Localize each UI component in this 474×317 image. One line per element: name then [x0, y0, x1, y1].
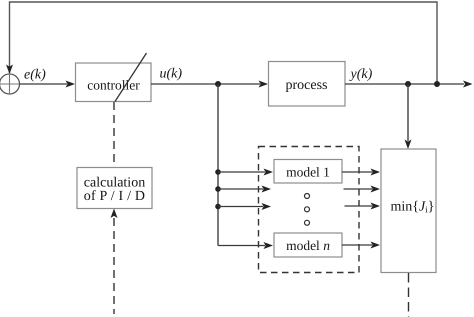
arrowhead up into calculation box: [111, 209, 118, 219]
adjustable-parameter slash through controller: [115, 53, 147, 102]
wire: model 1 output to min box: [342, 169, 380, 176]
junction node y(k) feedback: [434, 81, 440, 87]
wire: ellipsis output 3 to min box: [345, 203, 381, 210]
junction node y(k) to min box: [405, 81, 411, 87]
dashed model-bank box: [259, 147, 360, 273]
wire: feedback loop top (from output back to summing junction): [10, 2, 438, 84]
wire: branch into model n: [218, 242, 273, 249]
svg-text:e(k): e(k): [24, 68, 46, 83]
min{Ji} selector box: [381, 149, 436, 273]
ellipsis circle 2: [305, 207, 310, 212]
model n box: [274, 233, 342, 257]
wire: y(k) output line: [345, 81, 473, 88]
wire: ellipsis output 2 to min box: [344, 186, 381, 193]
ellipsis circle 3: [305, 220, 310, 225]
wire: branch into model 1: [218, 169, 273, 176]
dashed wire: controller to calculation box: [113, 102, 115, 167]
wire: y(k) down to min box: [405, 84, 412, 149]
summing junction (circle with plus cross): [0, 74, 20, 94]
svg-text:min{Ji}: min{Ji}: [391, 200, 435, 215]
svg-text:controller: controller: [87, 78, 140, 93]
junction node on u(k) line: [215, 81, 221, 87]
model 1 box: [274, 160, 342, 184]
dashed wire: min box down (to calculation, off image): [408, 273, 410, 317]
junction node branch 1: [215, 169, 221, 175]
svg-text:of P / I / D: of P / I / D: [84, 189, 145, 204]
svg-text:process: process: [286, 78, 328, 93]
wire: e(k) from summing junction to controller: [20, 81, 76, 88]
process box: [269, 62, 346, 107]
wire: branch 2 (ellipsis models): [218, 186, 271, 193]
wire: model n output to min box: [342, 242, 380, 249]
calculation of P/I/D box: [77, 168, 152, 209]
junction node branch 3: [215, 204, 221, 210]
svg-text:model n: model n: [286, 238, 330, 253]
wire: u(k) from controller to process: [151, 81, 268, 88]
svg-text:model 1: model 1: [286, 165, 330, 180]
svg-text:u(k): u(k): [160, 67, 183, 82]
arrowhead into summing junction (down): [6, 65, 13, 75]
wire: u(k) branch down to models: [217, 84, 219, 246]
svg-text:y(k): y(k): [349, 67, 373, 82]
junction node branch 2: [215, 186, 221, 192]
dashed wire: from below up into calculation box: [113, 218, 115, 314]
ellipsis circle 1: [305, 194, 310, 199]
wire: branch 3 (ellipsis models): [218, 203, 271, 210]
controller box: [76, 63, 152, 102]
